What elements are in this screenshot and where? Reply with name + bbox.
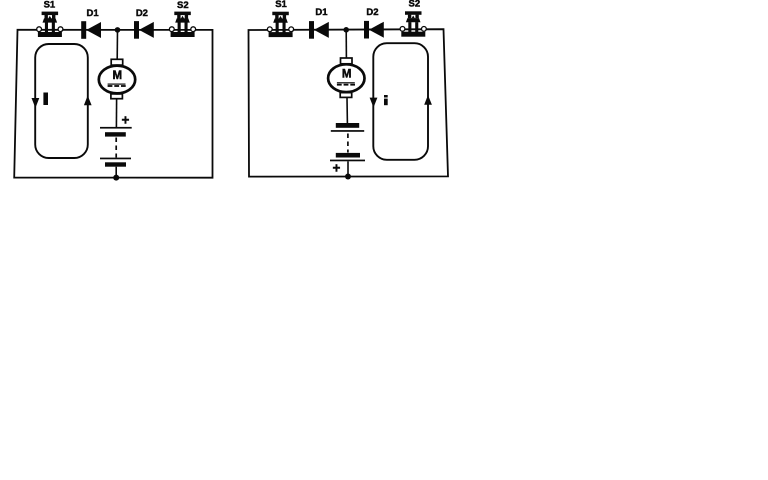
svg-text:D1: D1	[315, 7, 328, 18]
diode D2 (right)	[364, 21, 384, 39]
svg-text:+: +	[333, 161, 341, 176]
battery B1 cell 2	[100, 158, 131, 167]
wire battery to bottom rail (right)	[347, 161, 349, 176]
battery B2 cell 2 (reversed)	[330, 153, 365, 161]
diode D2	[134, 21, 154, 39]
svg-text:S1: S1	[275, 0, 287, 10]
arrow down on loop I left side	[32, 98, 40, 108]
svg-text:S1: S1	[44, 0, 56, 10]
battery B2 cell 1 (reversed)	[331, 123, 364, 132]
arrow down on loop i left side	[370, 98, 378, 108]
wire junction to motor (right)	[345, 30, 347, 58]
switch S2	[169, 12, 195, 37]
label I	[43, 93, 48, 106]
current loop I	[35, 44, 88, 158]
arrow up on loop I right side	[84, 96, 92, 106]
wire junction to motor	[116, 30, 118, 60]
switch S1 (right)	[267, 12, 293, 37]
node on bottom rail	[113, 175, 119, 181]
label i	[384, 95, 388, 105]
diode D1 (right)	[309, 21, 329, 39]
dashed wire between cells	[115, 138, 117, 158]
svg-text:D2: D2	[366, 7, 378, 18]
arrow up on loop i right side	[424, 95, 432, 105]
left circuit outer wire loop	[14, 30, 212, 178]
node junction (right D1-D2-motor)	[343, 27, 349, 33]
svg-text:S2: S2	[408, 0, 420, 9]
wire battery to bottom rail	[115, 167, 117, 178]
svg-text:D2: D2	[136, 8, 148, 19]
svg-text:S2: S2	[177, 0, 189, 11]
battery B1 cell 1	[100, 127, 132, 137]
svg-text:+: +	[122, 113, 130, 128]
wire motor to battery	[115, 99, 117, 127]
diode D1	[81, 21, 101, 39]
node junction (D1-D2-motor)	[115, 27, 121, 33]
motor M	[99, 59, 135, 98]
switch S1	[37, 12, 63, 37]
switch S2 (right)	[400, 11, 426, 36]
motor M (right)	[328, 58, 364, 97]
right circuit outer wire loop	[249, 29, 449, 176]
dashed wire between cells (right)	[347, 134, 349, 153]
svg-text:D1: D1	[87, 8, 100, 19]
node on bottom rail (right)	[345, 174, 351, 180]
wire motor to battery (right)	[346, 98, 348, 123]
current loop i	[373, 43, 428, 160]
